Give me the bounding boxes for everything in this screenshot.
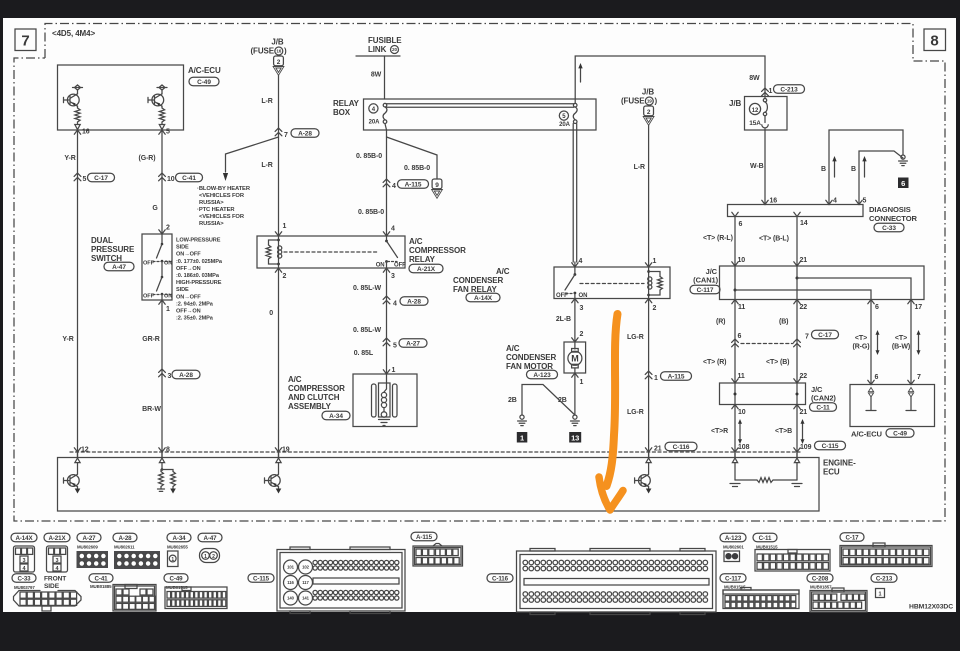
wire B diag pin 5 to ground 6 (851, 151, 903, 205)
connector label A-47 (198, 533, 222, 542)
svg-text:MU802655: MU802655 (167, 545, 188, 550)
svg-text:RUSSIA>: RUSSIA> (199, 221, 224, 227)
compressor relay switch (376, 236, 406, 269)
page number 7 (15, 29, 36, 51)
svg-text:A-27: A-27 (82, 535, 96, 542)
svg-text::0. 186±0. 03MPa: :0. 186±0. 03MPa (176, 273, 220, 279)
transistor Q2 inside A/C-ECU pin5 driver (148, 85, 167, 130)
svg-text:C-208: C-208 (812, 575, 829, 582)
svg-text:AND CLUTCH: AND CLUTCH (288, 393, 340, 402)
svg-text:C-17: C-17 (94, 175, 108, 182)
wire LG-R labels (627, 334, 697, 453)
svg-text:LINK: LINK (368, 45, 387, 54)
svg-text:4: 4 (579, 258, 583, 265)
svg-text:A-14X: A-14X (474, 295, 493, 302)
wire up from relay box fuse5 to top right 8W (575, 56, 765, 103)
svg-text:2: 2 (580, 331, 584, 338)
svg-text:Y-R: Y-R (62, 336, 73, 343)
fan relay dashed link (580, 283, 644, 285)
svg-text:1: 1 (392, 367, 396, 374)
svg-text:C-11: C-11 (816, 404, 830, 411)
connector A-21X pinout (47, 546, 68, 572)
svg-text::0. 177±0. 025MPa: :0. 177±0. 025MPa (176, 259, 223, 265)
svg-text:<T>B: <T>B (775, 428, 792, 435)
svg-text:HBM12X03DC: HBM12X03DC (909, 604, 953, 611)
svg-text:19: 19 (647, 99, 652, 104)
connector label C-116 (487, 574, 513, 583)
svg-text:2: 2 (647, 109, 651, 116)
wire branch 0.85B-0 to fuse 9 (387, 137, 443, 198)
A/C-ECU U1 box C-49 (58, 65, 221, 130)
connector A-115 pinout (413, 544, 463, 567)
svg-text:C-116: C-116 (492, 575, 509, 582)
connector label A-34 (167, 533, 191, 549)
svg-text:1: 1 (769, 88, 773, 95)
svg-text:J/B: J/B (271, 38, 283, 47)
svg-text:ENGINE-: ENGINE- (823, 459, 856, 468)
svg-text:11: 11 (738, 304, 745, 311)
svg-text:101: 101 (287, 565, 294, 570)
svg-text:PRESSURE: PRESSURE (91, 245, 135, 254)
svg-text:16: 16 (276, 49, 281, 54)
svg-text:LG-R: LG-R (627, 409, 644, 416)
fuse F4 20A (369, 103, 387, 125)
svg-text:7: 7 (284, 132, 288, 139)
wire T(R) label (703, 359, 745, 383)
svg-text:20A: 20A (369, 120, 380, 126)
CAN terminating resistor ENGINE-ECU pins 108 109 (730, 463, 802, 487)
fan motor label (506, 344, 558, 379)
connector C-116 pinout (517, 549, 717, 615)
svg-text:2: 2 (212, 554, 215, 560)
relay box bus bars (386, 104, 574, 108)
ENGINE-ECU pin forks (74, 448, 800, 463)
svg-text:8W: 8W (371, 72, 382, 79)
wire GR-R / BR-W from pressure switch to ENGINE-ECU pin 8 (142, 300, 200, 457)
svg-text:A-21X: A-21X (417, 266, 436, 273)
svg-text:C-115: C-115 (253, 575, 270, 582)
svg-text:117: 117 (302, 580, 309, 585)
svg-text:COMPRESSOR: COMPRESSOR (288, 384, 345, 393)
svg-text:C-213: C-213 (780, 86, 798, 93)
wire 0.85L-W compressor relay pin 3 to clutch assembly (353, 268, 428, 374)
svg-text:5: 5 (166, 129, 170, 136)
page number 8 (924, 29, 946, 51)
connector label A-123 (720, 533, 746, 549)
svg-text:140: 140 (287, 596, 294, 601)
svg-text:A/C-ECU: A/C-ECU (188, 66, 221, 75)
svg-text:7: 7 (805, 334, 809, 341)
svg-text:MUB01857: MUB01857 (810, 585, 832, 590)
svg-text:C-33: C-33 (17, 575, 31, 582)
svg-text:(R-G): (R-G) (853, 344, 870, 351)
wire 2L-B fan relay pin 3 to fan motor pin 2 (556, 299, 584, 343)
svg-text:(R): (R) (716, 319, 725, 326)
connector C-17 pinout (840, 543, 932, 567)
svg-text:A-115: A-115 (405, 181, 422, 188)
svg-text:1: 1 (166, 306, 170, 313)
wire 2B fan motor pin 1 to ground 13 (558, 373, 584, 415)
svg-text:MUB01885: MUB01885 (90, 584, 112, 589)
wire T(R-L) diag pin 6 to J/C CAN1 pin 10 (703, 217, 745, 267)
wire L-R from J/B fuse16 to A/C compressor relay pin 1 (261, 75, 319, 236)
svg-text:C-33: C-33 (882, 225, 896, 232)
connector C-213 pinout (876, 589, 885, 598)
title variant tag (52, 29, 95, 38)
svg-text:ECU: ECU (823, 468, 840, 477)
svg-text:CONNECTOR: CONNECTOR (869, 214, 918, 223)
connector C-11 pinout (755, 550, 830, 572)
wire 8W fusible link to relay box (371, 56, 385, 99)
svg-text:16: 16 (770, 198, 778, 205)
svg-text:A/C: A/C (409, 237, 423, 246)
svg-text:MU802609: MU802609 (77, 545, 98, 550)
svg-text:J/B: J/B (729, 99, 741, 108)
svg-text:<T> (R-L): <T> (R-L) (703, 235, 733, 242)
svg-text:20A: 20A (559, 122, 570, 128)
C-17 inline connector dashes (741, 330, 839, 343)
svg-text:OFF: OFF (394, 263, 406, 269)
connector A-27 pinout (77, 551, 109, 568)
connector label A-28 (113, 533, 137, 549)
svg-text:MU803797: MU803797 (14, 585, 35, 590)
svg-text:LOW-PRESSURE: LOW-PRESSURE (176, 238, 221, 244)
svg-text:L-R: L-R (634, 164, 645, 171)
svg-text:4: 4 (393, 301, 397, 308)
J/B fuse 16 feed (250, 38, 287, 76)
svg-text:A-28: A-28 (298, 130, 312, 137)
annotation orange arrow (599, 314, 623, 510)
svg-text:ON→OFF: ON→OFF (176, 252, 201, 258)
svg-text:C-17: C-17 (818, 332, 832, 339)
svg-text:A-34: A-34 (329, 413, 343, 420)
svg-text:<T>R: <T>R (711, 428, 728, 435)
svg-text:ON: ON (164, 261, 172, 267)
fan relay switch (556, 267, 587, 299)
svg-text:B: B (821, 166, 826, 173)
svg-text:B: B (851, 166, 856, 173)
svg-text:MUB01515: MUB01515 (756, 545, 778, 550)
svg-text:C-49: C-49 (893, 430, 907, 437)
svg-text:GR-R: GR-R (142, 336, 160, 343)
connector C-33 pinout (14, 591, 82, 612)
svg-text:4: 4 (391, 226, 395, 233)
svg-text:RUSSIA>: RUSSIA> (199, 200, 224, 206)
svg-text:A-27: A-27 (406, 340, 420, 347)
svg-text:<VEHICLES FOR: <VEHICLES FOR (199, 193, 245, 199)
svg-text:10: 10 (738, 409, 746, 416)
svg-text:1: 1 (204, 554, 207, 560)
svg-text:6: 6 (901, 179, 905, 188)
connector label A-21X (44, 533, 70, 542)
wire 0 compressor relay pin 2 to ENGINE-ECU pin 19 (269, 268, 290, 457)
svg-text:12: 12 (752, 108, 759, 114)
svg-text:9: 9 (435, 182, 439, 189)
svg-text:1: 1 (654, 375, 658, 382)
svg-text:LG-R: LG-R (627, 334, 644, 341)
wire B diag pin 4 to ground 6 (821, 130, 903, 205)
transistor Q5 ENGINE-ECU pin 21 (635, 463, 652, 494)
fuse F5 20A (559, 103, 577, 128)
svg-text:3: 3 (23, 558, 26, 564)
svg-text:A/C-ECU: A/C-ECU (851, 430, 883, 439)
svg-text:L-R: L-R (261, 98, 272, 105)
svg-text:116: 116 (287, 580, 294, 585)
svg-text:·BLOW-BY HEATER: ·BLOW-BY HEATER (197, 186, 251, 192)
svg-text:0. 85B-0: 0. 85B-0 (356, 153, 382, 160)
connector label C-49 (164, 574, 188, 590)
svg-text:A-14X: A-14X (15, 535, 33, 542)
svg-text:2: 2 (653, 305, 657, 312)
svg-text:2: 2 (166, 225, 170, 232)
connector dashed line C-116/C-115 (70, 451, 800, 453)
frame border (14, 24, 945, 522)
svg-text:<T> (B-L): <T> (B-L) (759, 236, 789, 243)
svg-text:<VEHICLES FOR: <VEHICLES FOR (199, 214, 245, 220)
connector label A-115 (411, 532, 437, 541)
svg-text:HIGH-PRESSURE: HIGH-PRESSURE (176, 280, 222, 286)
A/C condenser fan motor A-123 (564, 342, 586, 373)
svg-text:6: 6 (739, 221, 743, 228)
svg-text:C-49: C-49 (169, 575, 183, 582)
svg-text:8: 8 (930, 33, 938, 50)
svg-text:DIAGNOSIS: DIAGNOSIS (869, 205, 911, 214)
diagnosis connector bottom pins (732, 212, 808, 228)
connector A-14X pinout (14, 546, 35, 572)
svg-text:OFF→ON: OFF→ON (176, 309, 201, 315)
ground 6 (898, 155, 909, 188)
svg-text:2L-B: 2L-B (556, 316, 571, 323)
svg-text:5: 5 (393, 343, 397, 350)
connector label C-208 (807, 574, 833, 590)
wire T-R CAN2 to ENGINE-ECU pin 108 (711, 405, 750, 458)
wire G-R from A/C-ECU pin 5 to dual pressure switch (139, 129, 203, 235)
svg-text:A-115: A-115 (668, 373, 685, 380)
svg-text:6: 6 (875, 374, 879, 381)
connector label C-213 (871, 574, 897, 583)
A/C compressor relay A-21X box (257, 236, 466, 273)
svg-text:3: 3 (580, 305, 584, 312)
wire 0.85B-0 relay box to A/C compressor relay pin 4 (356, 124, 429, 236)
svg-text:SIDE: SIDE (176, 287, 189, 293)
connector C-115 pinout (277, 547, 405, 614)
svg-text:10: 10 (738, 257, 746, 264)
J/C CAN1 label (690, 267, 720, 294)
svg-text:SIDE: SIDE (176, 245, 189, 251)
svg-text:A-123: A-123 (533, 372, 551, 379)
connector A-123 pinout (724, 551, 740, 562)
CAN2 bottom pins (732, 405, 807, 417)
svg-text:W-B: W-B (750, 163, 764, 170)
svg-text:0. 85B-0: 0. 85B-0 (404, 165, 430, 172)
wire T-B CAN2 to ENGINE-ECU pin 109 (775, 405, 846, 458)
svg-text:M: M (571, 354, 578, 364)
svg-text:A-28: A-28 (118, 535, 132, 542)
svg-text:FRONT: FRONT (44, 576, 66, 583)
svg-text:MU802611: MU802611 (114, 545, 135, 550)
svg-text:4: 4 (392, 183, 396, 190)
svg-text:L-R: L-R (261, 162, 272, 169)
wire (R) CAN1 to C-17 (716, 300, 742, 384)
svg-text:MU802601: MU802601 (723, 545, 744, 550)
connector A-28 pinout (114, 551, 160, 569)
svg-text:SIDE: SIDE (44, 583, 60, 590)
clutch assembly label (288, 375, 350, 420)
J/C CAN2 label (810, 385, 837, 411)
svg-text:0: 0 (269, 310, 273, 317)
svg-text:(CAN2): (CAN2) (811, 394, 836, 403)
svg-text:A-28: A-28 (179, 372, 193, 379)
svg-text:BOX: BOX (333, 108, 351, 117)
connector label A-27 (77, 533, 101, 549)
svg-text:C-41: C-41 (182, 175, 196, 182)
svg-text:ASSEMBLY: ASSEMBLY (288, 402, 332, 411)
svg-text:A/C: A/C (496, 267, 510, 276)
J/B fuse 19 feed (621, 88, 658, 126)
svg-text:FUSIBLE: FUSIBLE (368, 36, 402, 45)
svg-text:1: 1 (520, 433, 524, 442)
svg-text:C-17: C-17 (845, 534, 859, 541)
connector C-41 pinout (113, 585, 156, 612)
svg-text:CONDENSER: CONDENSER (453, 276, 504, 285)
svg-text:J/B: J/B (642, 88, 654, 97)
svg-text:G: G (152, 205, 158, 212)
dual pressure switch spec text (176, 238, 223, 322)
svg-text:A-28: A-28 (407, 298, 421, 305)
blow-by heater note (197, 186, 251, 227)
svg-text:<T>: <T> (855, 335, 867, 342)
svg-text:C-115: C-115 (822, 443, 839, 450)
wire LG-R fan relay pin 2 to ENGINE-ECU pin 21 (645, 299, 656, 458)
svg-text:A/C: A/C (506, 344, 520, 353)
svg-text:(B): (B) (779, 319, 788, 326)
svg-text:<T> (B): <T> (B) (766, 359, 789, 366)
wire W-B to diagnosis connector pin 16 (750, 131, 777, 205)
svg-text:1: 1 (283, 223, 287, 230)
svg-text:): ) (284, 47, 287, 56)
svg-text:C-213: C-213 (876, 575, 893, 582)
svg-text:10: 10 (167, 176, 175, 183)
connector A-47 pinout (200, 549, 220, 563)
J/C CAN2 C-11 box (720, 383, 806, 405)
diagnosis connector C-33 box (728, 205, 864, 217)
svg-text:13: 13 (571, 433, 579, 442)
svg-text:8W: 8W (749, 75, 760, 82)
svg-text:15A: 15A (749, 120, 761, 127)
svg-text:A-123: A-123 (725, 535, 742, 542)
svg-text:2B: 2B (508, 397, 517, 404)
ground 13 (569, 415, 581, 443)
svg-text:ON→OFF: ON→OFF (176, 294, 201, 300)
svg-text:C-49: C-49 (197, 79, 211, 86)
transistor Q4 ENGINE-ECU pin 19 (265, 463, 282, 494)
svg-text:7: 7 (917, 374, 921, 381)
svg-text:0. 85L-W: 0. 85L-W (353, 327, 381, 334)
svg-text:A/C: A/C (288, 375, 302, 384)
svg-text:2: 2 (283, 273, 287, 280)
svg-text:·PTC HEATER: ·PTC HEATER (197, 207, 235, 213)
connector label C-11 (753, 533, 778, 549)
wire T(B) label (766, 359, 807, 383)
svg-text:1: 1 (580, 379, 584, 386)
svg-text:(FUSE: (FUSE (250, 47, 274, 56)
svg-text:DUAL: DUAL (91, 236, 113, 245)
svg-text:C-116: C-116 (673, 444, 690, 451)
compressor relay dashed link (284, 251, 378, 253)
wire T(B-L) diag pin 14 to J/C CAN1 pin 21 (759, 217, 807, 267)
svg-text:OFF: OFF (143, 261, 155, 267)
svg-text:OFF→ON: OFF→ON (176, 266, 201, 272)
svg-text:A-21X: A-21X (48, 535, 66, 542)
svg-text:1: 1 (879, 592, 882, 598)
compressor relay coil (266, 236, 282, 268)
svg-text:): ) (655, 97, 658, 106)
svg-text:<T> (R): <T> (R) (703, 359, 726, 366)
fusible link 20 feed (356, 36, 402, 56)
svg-text:108: 108 (738, 444, 750, 451)
wire L-R J/B fuse19 to fan relay coil pin 1 (634, 125, 657, 267)
fan relay label (453, 267, 510, 302)
svg-text:<4D5, 4M4>: <4D5, 4M4> (52, 29, 95, 38)
wire 8W to J/B fuse 12 C-213 (762, 85, 805, 96)
connector label C-41 (89, 574, 113, 589)
connector label C-117 (720, 574, 746, 590)
svg-text:5: 5 (863, 198, 867, 205)
J/B fuse 12 15A box (729, 97, 787, 131)
transistor Q1 inside A/C-ECU pin16 driver (64, 85, 83, 130)
svg-text:(CAN1): (CAN1) (693, 276, 718, 285)
dual pressure switch A-47 (142, 234, 172, 300)
double wire relay box fuse5 to fan relay pin 4 (572, 124, 583, 267)
svg-text:0. 85B-0: 0. 85B-0 (358, 209, 384, 216)
ground 1 (517, 415, 528, 443)
svg-text:CONDENSER: CONDENSER (506, 353, 557, 362)
A/C-ECU right label (851, 429, 914, 439)
svg-text:A-34: A-34 (172, 535, 186, 542)
fan relay coil (647, 267, 662, 299)
CAN1 internal wires (734, 266, 912, 300)
svg-text:5: 5 (83, 176, 87, 183)
svg-text:(G-R): (G-R) (139, 155, 156, 162)
wire 2B jumper to ground 1 (508, 385, 575, 416)
svg-text:21: 21 (800, 257, 808, 264)
connector C-117 pinout (723, 588, 799, 609)
svg-text:C-41: C-41 (94, 575, 108, 582)
connector A-34 pinout (168, 551, 179, 567)
svg-text:3: 3 (56, 558, 59, 564)
CAN1 bottom pins (732, 300, 922, 312)
svg-text:6: 6 (738, 333, 742, 340)
svg-text:Y-R: Y-R (64, 155, 75, 162)
svg-text:2: 2 (277, 59, 281, 66)
svg-text:RELAY: RELAY (333, 99, 360, 108)
svg-text:0. 85L-W: 0. 85L-W (353, 285, 381, 292)
svg-text:4: 4 (833, 198, 837, 205)
svg-text:ON: ON (579, 293, 588, 299)
A/C compressor and clutch assembly A-34 (353, 374, 417, 427)
svg-text:3: 3 (391, 273, 395, 280)
svg-text:1: 1 (653, 258, 657, 265)
J/C CAN1 C-117 box (720, 266, 925, 300)
svg-text:<T>: <T> (895, 335, 907, 342)
svg-text:102: 102 (302, 565, 309, 570)
svg-text:A-47: A-47 (203, 535, 217, 542)
wire T(R-G) CAN1 to A/C-ECU pin 6 (853, 300, 880, 385)
svg-text:14: 14 (800, 220, 808, 227)
connector label C-17 (840, 533, 864, 542)
diagnosis connector label (869, 205, 918, 232)
svg-text:7: 7 (21, 33, 29, 50)
